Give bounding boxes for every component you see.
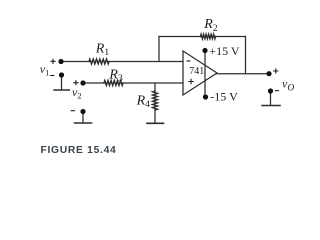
wire feedback top left segment xyxy=(159,36,201,38)
wire feedback left vertical xyxy=(158,37,160,62)
resistor R2 xyxy=(201,34,216,38)
svg-text:-15 V: -15 V xyxy=(210,90,238,104)
wire R3 to op-amp noninverting input xyxy=(123,82,183,84)
polarity minus of v1 xyxy=(50,75,54,77)
svg-text:R1: R1 xyxy=(95,42,110,59)
node output minus terminal xyxy=(268,88,273,93)
ground v1 xyxy=(54,89,69,91)
polarity minus of v2 xyxy=(71,110,75,112)
node v1 plus terminal xyxy=(58,59,63,64)
svg-text:R3: R3 xyxy=(108,68,123,85)
wire R4 top stub xyxy=(154,83,156,91)
wire op-amp output xyxy=(217,73,269,75)
wire output minus ground stem xyxy=(270,91,272,105)
polarity plus of v2 xyxy=(73,80,78,85)
svg-text:R4: R4 xyxy=(136,93,151,110)
node v2 minus terminal xyxy=(80,109,85,114)
wire positive supply stem xyxy=(204,51,206,98)
svg-text:v1: v1 xyxy=(40,62,50,78)
svg-text:+15 V: +15 V xyxy=(209,44,240,58)
resistor R3 xyxy=(104,81,123,86)
op-amp noninverting sign xyxy=(188,79,193,84)
svg-text:vO: vO xyxy=(282,76,294,93)
wire v1 to R1 xyxy=(61,61,89,63)
wire v1 minus ground stem xyxy=(61,75,63,89)
node v1 minus terminal xyxy=(59,72,64,77)
wire v2 minus ground stem xyxy=(82,112,84,123)
resistor R4 xyxy=(153,91,158,110)
polarity minus of output xyxy=(275,90,279,92)
ground R4 xyxy=(147,122,164,124)
polarity plus of output xyxy=(273,68,278,73)
wire R1 to op-amp inverting input xyxy=(109,61,183,63)
ground v2 xyxy=(75,122,92,124)
wire feedback top right segment xyxy=(216,36,246,38)
op-amp inverting sign xyxy=(187,60,191,62)
resistor R1 xyxy=(89,59,109,64)
svg-text:741: 741 xyxy=(189,66,204,77)
node output plus terminal xyxy=(266,71,271,76)
svg-text:R2: R2 xyxy=(203,17,218,34)
ground output xyxy=(262,105,280,107)
node v2 plus terminal xyxy=(80,80,85,85)
polarity plus of v1 xyxy=(50,59,55,64)
caption FIGURE 15.44 xyxy=(41,145,117,156)
wire v2 to R3 xyxy=(83,82,104,84)
op-amp U1 741 triangle xyxy=(183,51,217,95)
node +15V supply terminal xyxy=(202,48,207,53)
svg-text:v2: v2 xyxy=(72,85,82,101)
wire R4 bottom stub xyxy=(154,110,156,123)
node -15V supply terminal xyxy=(203,94,208,99)
wire feedback right vertical xyxy=(245,37,247,74)
